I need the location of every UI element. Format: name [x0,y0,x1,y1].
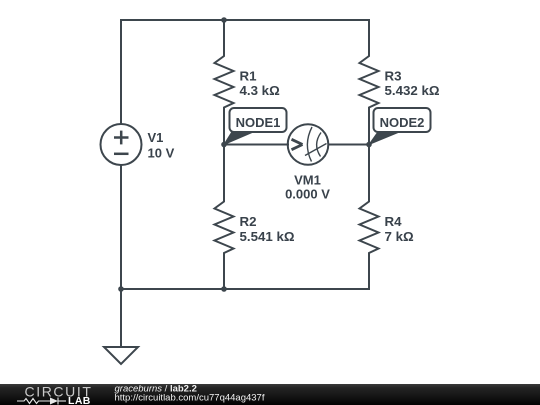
label V1 value [148,130,175,161]
svg-text:http://circuitlab.com/cu77q44a: http://circuitlab.com/cu77q44ag437f [115,392,265,403]
svg-text:4.3 kΩ: 4.3 kΩ [240,83,281,98]
svg-text:10 V: 10 V [148,146,175,161]
resistor R1 [215,20,234,145]
label R2 value [240,214,295,244]
wire middle right (voltmeter to node2) [329,144,370,146]
svg-text:NODE1: NODE1 [236,115,281,130]
svg-text:7 kΩ: 7 kΩ [385,229,414,244]
svg-text:5.541 kΩ: 5.541 kΩ [240,229,295,244]
wire left rail upper [120,20,122,124]
resistor R4 [360,145,379,290]
wire middle left (node1 to voltmeter) [224,144,288,146]
ground [104,347,138,364]
voltage source V1 [101,124,142,165]
junction dot top [221,17,227,23]
svg-text:LAB: LAB [68,395,91,405]
junction dot bottom left [118,286,124,292]
label R1 value [240,68,281,98]
wire top rail [121,19,369,21]
svg-text:VM1: VM1 [294,172,321,187]
svg-text:NODE2: NODE2 [380,115,425,130]
junction dot node1 [221,142,227,148]
label R3 value [385,68,440,98]
resistor R2 [215,145,234,290]
svg-text:R2: R2 [240,214,257,229]
wire left rail lower [120,166,122,290]
label R4 value [385,214,414,244]
wire bottom rail [121,288,369,290]
voltmeter VM1 [288,124,329,165]
svg-text:V1: V1 [148,130,164,145]
svg-text:5.432 kΩ: 5.432 kΩ [385,83,440,98]
junction dot node2 [366,142,372,148]
label VM1 value [285,172,330,201]
wire ground lead [120,289,122,347]
CircuitLab logo wordmark [17,383,92,405]
footer title text [115,383,265,403]
node NODE1 flag [224,108,287,145]
svg-text:R3: R3 [385,68,402,83]
node NODE2 flag [369,108,431,145]
svg-text:R1: R1 [240,68,258,83]
junction dot bottom middle [221,286,227,292]
svg-text:R4: R4 [385,214,403,229]
svg-text:0.000 V: 0.000 V [285,187,330,202]
resistor R3 [360,20,379,145]
